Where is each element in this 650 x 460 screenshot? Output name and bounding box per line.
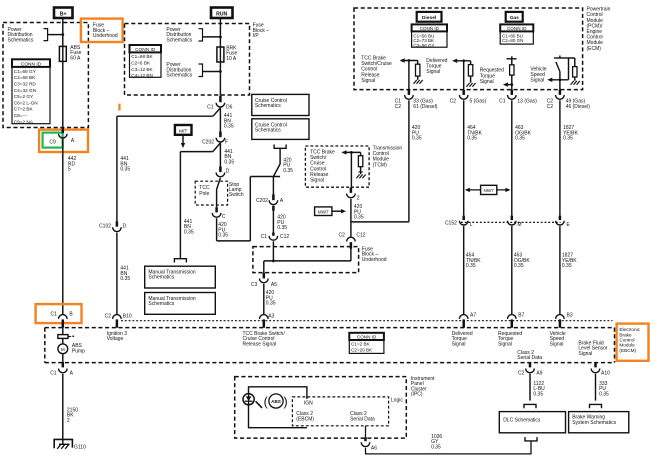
svg-text:0.35: 0.35 bbox=[466, 263, 476, 269]
svg-text:M: M bbox=[61, 347, 65, 352]
instrument panel cluster (IPC) label bbox=[411, 376, 435, 398]
connector C9 terminal bbox=[59, 128, 68, 138]
wire 420 right riser bbox=[350, 248, 352, 261]
svg-text:46 (Diesel): 46 (Diesel) bbox=[566, 104, 591, 110]
connector C1 pin C12 (left) bbox=[261, 232, 290, 240]
fuse ABS 60A bbox=[59, 45, 81, 62]
svg-text:G110: G110 bbox=[74, 444, 86, 450]
svg-text:(EBCM): (EBCM) bbox=[619, 348, 636, 353]
wire 1827 YE/BK 0.35 label (upper) bbox=[563, 125, 578, 141]
label M/T with arrow bbox=[175, 125, 192, 148]
svg-text:C1=2 BK: C1=2 BK bbox=[351, 342, 370, 347]
svg-text:Serial Data: Serial Data bbox=[350, 416, 375, 422]
connector C152 pin M bbox=[508, 216, 522, 229]
wire bulb to class 2 logic bbox=[249, 404, 307, 427]
svg-text:0.35: 0.35 bbox=[224, 124, 234, 130]
manual transmission schematics box 2 bbox=[145, 293, 216, 315]
svg-text:Voltage: Voltage bbox=[107, 336, 124, 342]
powertrain control module dashed box bbox=[354, 8, 583, 90]
junction to power distribution bracket bbox=[48, 33, 65, 36]
svg-text:B3: B3 bbox=[567, 313, 573, 319]
connector PCM pin 13 bbox=[499, 90, 537, 105]
delivered torque signal label (EBCM) bbox=[452, 331, 473, 347]
svg-text:0.35: 0.35 bbox=[599, 391, 609, 397]
power distribution schematics reference (lower IP) bbox=[166, 62, 221, 78]
label Gas bbox=[506, 12, 523, 22]
wire 464 TN/BK upper bbox=[463, 100, 465, 215]
svg-text:C1: C1 bbox=[50, 311, 57, 317]
svg-text:0.35: 0.35 bbox=[120, 276, 130, 282]
node B+ battery feed box bbox=[54, 8, 73, 19]
svg-text:): ) bbox=[284, 395, 288, 409]
wire 1036 GY serial data run bbox=[366, 441, 532, 454]
svg-text:C2: C2 bbox=[338, 232, 345, 238]
connector pin B3 bbox=[556, 313, 573, 328]
svg-text:C102: C102 bbox=[99, 223, 111, 229]
connector C3 pin A5 bbox=[251, 273, 277, 288]
svg-text:Underhood: Underhood bbox=[362, 257, 387, 263]
svg-text:0.35: 0.35 bbox=[120, 167, 130, 173]
svg-text:0.35: 0.35 bbox=[277, 225, 287, 231]
svg-text:C1: C1 bbox=[261, 234, 268, 240]
vehicle speed signal label (PCM) bbox=[530, 66, 546, 83]
svg-text:Signal: Signal bbox=[530, 78, 544, 84]
svg-text:Signal: Signal bbox=[452, 341, 466, 347]
wire 442 RD down to EBCM bbox=[62, 139, 64, 314]
PCM/ECM name label bbox=[587, 7, 611, 52]
power distribution schematics reference (upper IP) bbox=[166, 27, 221, 43]
wire 420 PU 0.35 label (TCM) bbox=[354, 204, 364, 220]
svg-text:System Schematics: System Schematics bbox=[572, 420, 616, 426]
connector C1 pin B highlight box bbox=[36, 304, 82, 323]
ignition 3 voltage label bbox=[107, 331, 128, 342]
wire pump to C1 A bbox=[62, 354, 64, 362]
connector table CONN ID (diesel) bbox=[412, 24, 447, 47]
fuse block underhood dashed boundary bbox=[3, 23, 88, 128]
svg-text:Signal: Signal bbox=[426, 69, 440, 75]
svg-text:0.35: 0.35 bbox=[467, 136, 477, 142]
wire 2150 BK to ground bbox=[62, 374, 64, 444]
svg-text:B+: B+ bbox=[60, 11, 67, 17]
svg-text:D: D bbox=[226, 169, 230, 175]
PCM delivered torque pullup bbox=[452, 59, 475, 87]
svg-text:C2: C2 bbox=[105, 313, 112, 319]
wire 442 RD 5 label bbox=[68, 156, 77, 172]
svg-text:C2=20 BK: C2=20 BK bbox=[351, 347, 373, 352]
connector C202 pin F bbox=[202, 131, 228, 145]
svg-text:61 (Diesel): 61 (Diesel) bbox=[413, 104, 438, 110]
connector PCM pin 49/46 bbox=[547, 90, 591, 110]
connector C2 pin A9 bbox=[518, 363, 543, 377]
wire 420 to C12 bbox=[272, 211, 274, 233]
wire PCM pin C1-33 internal bbox=[408, 61, 410, 92]
svg-text:CONN ID: CONN ID bbox=[420, 26, 440, 31]
svg-text:0.35: 0.35 bbox=[514, 263, 524, 269]
delivered torque signal label bbox=[426, 58, 447, 75]
svg-text:Gas: Gas bbox=[510, 15, 520, 21]
EBCM dashed boundary bbox=[45, 328, 615, 363]
vehicle speed signal label (EBCM) bbox=[550, 331, 566, 347]
wire 420 up to TCM bbox=[350, 199, 352, 237]
svg-text:C2=80 GN: C2=80 GN bbox=[502, 38, 523, 43]
svg-text:0.35: 0.35 bbox=[354, 215, 364, 221]
wire 420 down to C202 A bbox=[272, 177, 274, 195]
svg-text:RUN: RUN bbox=[216, 11, 227, 17]
svg-text:A7: A7 bbox=[470, 313, 476, 319]
wire 420 PU 0.35 label (PCM drop) bbox=[412, 125, 422, 141]
connector table CONN ID (underhood C1-C9) bbox=[12, 59, 50, 124]
svg-text:Schematics: Schematics bbox=[148, 275, 174, 281]
svg-text:M: M bbox=[517, 222, 521, 228]
PCM TCC brake signal label bbox=[361, 56, 392, 84]
svg-text:C8=---: C8=--- bbox=[14, 113, 28, 118]
svg-text:I/P: I/P bbox=[253, 33, 260, 39]
ground G110 bbox=[54, 439, 86, 450]
svg-text:F: F bbox=[225, 140, 228, 146]
wire 2150 BK 2 label bbox=[67, 407, 78, 423]
connector table CONN ID (gas) bbox=[500, 24, 533, 44]
connector pin A10 bbox=[591, 363, 610, 377]
TCM pullup resistor and ground bbox=[342, 150, 366, 178]
svg-text:Switch: Switch bbox=[229, 192, 244, 198]
wire IGN to bulb bbox=[249, 387, 314, 407]
svg-text:C3=32 RD: C3=32 RD bbox=[14, 82, 37, 87]
svg-text:0.35: 0.35 bbox=[218, 233, 228, 239]
svg-text:C3=12 BK: C3=12 BK bbox=[131, 67, 153, 72]
brake fluid level sensor signal label bbox=[578, 340, 608, 356]
svg-text:Underhood: Underhood bbox=[93, 33, 118, 39]
svg-text:A9: A9 bbox=[536, 370, 542, 376]
connector PCM pin 5 bbox=[450, 90, 487, 105]
svg-text:NW7: NW7 bbox=[483, 188, 494, 193]
svg-text:A3: A3 bbox=[268, 313, 274, 319]
wire 463 OG/BK upper bbox=[511, 100, 513, 215]
wire PCM pin C2-5 internal bbox=[463, 61, 465, 92]
svg-text:0.35: 0.35 bbox=[184, 229, 194, 235]
wire 464 TN/BK lower bbox=[463, 226, 465, 314]
svg-text:Logic: Logic bbox=[391, 397, 403, 403]
wire 441 BN 0.35 label (lower run) bbox=[120, 266, 130, 282]
svg-text:CONN ID: CONN ID bbox=[135, 47, 156, 53]
wire 441 BN 0.35 label (M/T branch) bbox=[184, 219, 194, 235]
connector C2 pin C12 (right) bbox=[338, 232, 365, 248]
connector pin D bbox=[216, 167, 230, 177]
svg-text:C2: C2 bbox=[547, 104, 554, 110]
svg-text:C2=68 BK: C2=68 BK bbox=[14, 75, 36, 80]
node RUN ignition feed box bbox=[211, 8, 233, 19]
svg-text:C2: C2 bbox=[518, 370, 525, 376]
svg-text:Schematics: Schematics bbox=[148, 301, 174, 307]
transmission control module (TCM) label bbox=[373, 146, 403, 169]
svg-text:Release Signal: Release Signal bbox=[243, 341, 277, 347]
wire 441 branch to manual trans bbox=[180, 143, 220, 259]
svg-text:C1: C1 bbox=[50, 371, 57, 377]
wire 333 to brake warning bbox=[590, 374, 602, 408]
connector C1 pin A bbox=[50, 362, 73, 377]
svg-text:2: 2 bbox=[357, 196, 360, 202]
svg-text:Serial Data: Serial Data bbox=[517, 355, 542, 361]
svg-text:L: L bbox=[470, 222, 473, 228]
svg-text:A6: A6 bbox=[371, 445, 377, 451]
TCM signal label bbox=[310, 150, 335, 184]
svg-text:C202: C202 bbox=[256, 198, 268, 204]
svg-text:A5: A5 bbox=[271, 282, 277, 288]
svg-text:C202: C202 bbox=[202, 140, 214, 146]
ABS indicator label bbox=[264, 394, 288, 409]
svg-text:10 A: 10 A bbox=[226, 56, 237, 62]
svg-text:Schematics: Schematics bbox=[255, 128, 281, 134]
electronic brake control module (EBCM) orange callout bbox=[617, 324, 649, 361]
svg-text:C4=32 GN: C4=32 GN bbox=[14, 88, 36, 93]
svg-text:13 (Gas): 13 (Gas) bbox=[517, 99, 537, 105]
svg-text:(TCM): (TCM) bbox=[373, 162, 387, 168]
svg-text:Schematics: Schematics bbox=[166, 73, 192, 79]
wire 463 OG/BK 0.35 label (lower) bbox=[514, 253, 531, 269]
svg-text:C9: C9 bbox=[49, 139, 56, 145]
fuse block underhood orange callout box bbox=[81, 19, 123, 42]
svg-text:C2=6 BK: C2=6 BK bbox=[131, 61, 151, 66]
svg-text:C6=2 L-GN: C6=2 L-GN bbox=[14, 100, 38, 105]
wire 420 switch output run bbox=[217, 177, 281, 241]
svg-text:Pump: Pump bbox=[72, 348, 85, 354]
svg-text:0.35: 0.35 bbox=[412, 136, 422, 142]
svg-text:0.35: 0.35 bbox=[266, 301, 276, 307]
svg-text:C1=68 BK: C1=68 BK bbox=[131, 54, 153, 59]
svg-text:C1: C1 bbox=[499, 99, 506, 105]
svg-text:CONN ID: CONN ID bbox=[507, 26, 527, 31]
svg-text:C: C bbox=[222, 214, 226, 220]
label NW7 splice pointer bbox=[465, 185, 511, 194]
svg-text:C3=56 GY: C3=56 GY bbox=[413, 43, 434, 48]
wire 420 into fuse block bbox=[272, 241, 274, 261]
manual transmission schematics reference bracket bbox=[174, 259, 186, 263]
svg-text:Signal: Signal bbox=[550, 341, 564, 347]
PCM TCC brake input pullup bbox=[400, 58, 423, 84]
wire 441 BN 0.35 label (below D6) bbox=[224, 113, 234, 129]
requested torque signal label (EBCM) bbox=[498, 331, 522, 347]
wire 463 OG/BK lower bbox=[511, 226, 513, 314]
svg-text:MW7: MW7 bbox=[318, 209, 329, 214]
connector C202 pin A bbox=[256, 194, 284, 211]
svg-text:C1: C1 bbox=[207, 104, 214, 110]
svg-text:0.35: 0.35 bbox=[563, 136, 573, 142]
wire 420 PU 0.35 label (to EBCM) bbox=[266, 290, 276, 306]
wire 420 from cruise control bbox=[273, 145, 286, 177]
svg-text:D6: D6 bbox=[226, 104, 233, 110]
wire 463 OG/BK 0.35 label (upper) bbox=[515, 125, 532, 141]
svg-text:C2: C2 bbox=[395, 104, 402, 110]
svg-text:CONN ID: CONN ID bbox=[21, 61, 42, 67]
inline connector C102 pin D bbox=[99, 221, 127, 231]
label MW7 with arrow bbox=[315, 207, 346, 216]
wire 441 BN lower run bbox=[116, 233, 118, 315]
svg-text:D: D bbox=[123, 223, 127, 229]
connector C152 pin L bbox=[459, 216, 472, 229]
connector pin B terminal bbox=[59, 315, 68, 328]
svg-text:B7: B7 bbox=[518, 313, 524, 319]
wire 420 PU 0.35 label (switch out) bbox=[218, 222, 228, 238]
cruise control schematics box 1 bbox=[252, 94, 309, 115]
fuse BRK 10A bbox=[217, 46, 238, 63]
svg-text:C12: C12 bbox=[280, 234, 289, 240]
wire 441 to stop lamp switch bbox=[219, 143, 221, 167]
manual transmission schematics box 1 bbox=[145, 266, 216, 288]
wire 1036 GY 0.35 label bbox=[431, 434, 442, 450]
svg-text:0.35: 0.35 bbox=[283, 168, 293, 174]
svg-text:CONN ID: CONN ID bbox=[357, 334, 377, 339]
wire TCM pin 2 internal bbox=[350, 152, 352, 187]
svg-text:Signal: Signal bbox=[498, 341, 512, 347]
instrument panel cluster dashed box bbox=[235, 377, 407, 439]
connector C152 pin E bbox=[556, 216, 571, 229]
svg-text:C5=2 GY: C5=2 GY bbox=[14, 94, 34, 99]
wire 441 BN 0.35 label (upper run) bbox=[120, 156, 130, 172]
svg-text:M/T: M/T bbox=[179, 129, 187, 135]
brake warning system schematics box bbox=[569, 412, 629, 433]
inline connector C152 dotted face bbox=[445, 221, 561, 227]
svg-text:Diesel: Diesel bbox=[422, 15, 437, 21]
svg-text:Pole: Pole bbox=[199, 191, 209, 197]
svg-text:B10: B10 bbox=[123, 313, 132, 319]
wire 441 branch to left bbox=[117, 108, 220, 116]
IPC logic dashed box bbox=[292, 397, 403, 426]
wire 1827 YE/BK upper bbox=[559, 100, 561, 215]
connector pin B7 bbox=[508, 313, 525, 328]
wire 464 TN/BK 0.35 label (lower) bbox=[466, 253, 481, 269]
svg-text:C12: C12 bbox=[356, 232, 365, 238]
connector PCM pin 33/61 bbox=[395, 90, 438, 110]
svg-text:Signal: Signal bbox=[361, 78, 375, 84]
connector C2 pin B10 bbox=[105, 313, 132, 327]
label Diesel bbox=[417, 12, 442, 22]
ABS indicator bulb bbox=[243, 394, 262, 408]
wire 420 PU 0.35 label (below A) bbox=[277, 215, 287, 231]
connector pin A3 bbox=[260, 313, 275, 327]
wire 420 PU 0.35 label (cruise) bbox=[283, 158, 293, 174]
wire 420 bus inside fuse block bbox=[264, 260, 351, 262]
svg-text:C4=12 BN: C4=12 BN bbox=[131, 73, 153, 78]
svg-text:C2: C2 bbox=[450, 99, 457, 105]
svg-text:ABS: ABS bbox=[271, 399, 281, 404]
svg-text:C3: C3 bbox=[251, 282, 258, 288]
DLC lower reference bracket bbox=[525, 437, 537, 441]
wire 441 down to C202 bbox=[219, 108, 221, 131]
wire 420 PU from PCM bbox=[351, 100, 409, 222]
DLC schematics box bbox=[499, 412, 565, 433]
connector pin C bbox=[212, 207, 226, 220]
svg-text:C152: C152 bbox=[445, 221, 457, 227]
fuse block IP dashed boundary bbox=[125, 24, 250, 96]
svg-text:0.35: 0.35 bbox=[515, 136, 525, 142]
connector C9 highlight (orange+green) with pin A bbox=[39, 130, 88, 152]
svg-text:5 (Gas): 5 (Gas) bbox=[470, 99, 487, 105]
svg-text:Signal: Signal bbox=[578, 351, 592, 357]
svg-text:Signal: Signal bbox=[310, 178, 324, 184]
wire 39 RUN feed vertical bbox=[219, 18, 221, 96]
transmission control module dashed box bbox=[305, 146, 369, 187]
svg-text:0.35: 0.35 bbox=[562, 263, 572, 269]
svg-text:(IPC): (IPC) bbox=[411, 392, 423, 398]
wire 1122 to DLC bbox=[524, 374, 536, 408]
connector table CONN ID (IP C1-C4) bbox=[130, 45, 162, 78]
svg-text:(EBCM): (EBCM) bbox=[296, 416, 314, 422]
svg-text:5: 5 bbox=[68, 167, 71, 173]
wire 1827 YE/BK 0.35 label (lower) bbox=[562, 253, 577, 269]
wire 1827 YE/BK lower bbox=[559, 226, 561, 314]
wire 333 PU 0.35 label bbox=[599, 381, 609, 397]
svg-text:C1=68 GY: C1=68 GY bbox=[14, 69, 37, 74]
svg-text:Signal: Signal bbox=[480, 79, 494, 85]
class 2 serial data label (IPC) bbox=[350, 411, 375, 423]
motor M ABS pump bbox=[58, 338, 85, 354]
svg-text:Schematics: Schematics bbox=[166, 37, 192, 43]
power distribution schematics reference (left) bbox=[8, 27, 48, 43]
wire 420 down to EBCM A3 bbox=[263, 284, 265, 314]
wire 441 BN 0.35 label (above D) bbox=[224, 149, 234, 165]
cruise control schematics box 2 bbox=[252, 119, 309, 140]
requested torque signal label bbox=[480, 68, 504, 85]
svg-text:0.35: 0.35 bbox=[431, 444, 441, 450]
TCC brake release signal label (EBCM) bbox=[243, 331, 286, 347]
svg-text:A10: A10 bbox=[601, 370, 610, 376]
stop lamp switch (TCC pole) bbox=[195, 178, 244, 207]
wire 442 from B+ through ABS fuse bbox=[62, 18, 64, 128]
connector pin A7 bbox=[459, 313, 476, 328]
wire 1122 L-BU 0.35 label bbox=[533, 381, 545, 397]
svg-text:Schematics: Schematics bbox=[8, 37, 34, 43]
connector C1 pin D6 bbox=[207, 96, 233, 111]
wire 420 left drop to A5 bbox=[263, 261, 265, 273]
svg-text:C7=2 BK: C7=2 BK bbox=[14, 107, 34, 112]
fuse block underhood (middle) dashed boundary bbox=[253, 246, 387, 272]
svg-text:0.35: 0.35 bbox=[224, 159, 234, 165]
fuse block IP label bbox=[253, 23, 270, 39]
EBCM connector dotted face bbox=[121, 320, 613, 322]
PCM vehicle speed switch and pullup bbox=[547, 56, 580, 92]
class 2 (EBCM) label bbox=[296, 411, 314, 423]
svg-text:C9=2 NA: C9=2 NA bbox=[14, 119, 34, 124]
connector IPC pin A6 bbox=[361, 426, 377, 452]
svg-text:60 A: 60 A bbox=[70, 55, 81, 61]
connector TCM pin 2 bbox=[347, 188, 360, 202]
junction in fuse block bbox=[272, 260, 275, 263]
svg-text:2: 2 bbox=[67, 418, 70, 424]
svg-text:DLC Schematics: DLC Schematics bbox=[503, 417, 541, 423]
PCM requested torque sense bbox=[503, 56, 517, 92]
connector table CONN ID (EBCM) bbox=[349, 333, 384, 354]
svg-text:(ECM): (ECM) bbox=[587, 46, 602, 52]
svg-text:IGN: IGN bbox=[304, 401, 313, 407]
orange splice tick bbox=[118, 104, 120, 111]
svg-text:0.35: 0.35 bbox=[533, 391, 543, 397]
wire 464 TN/BK 0.35 label (upper) bbox=[467, 125, 482, 141]
class 2 serial data label (EBCM) bbox=[517, 350, 542, 361]
svg-text:Schematics: Schematics bbox=[255, 103, 281, 109]
ABS pump motor feed fuse bbox=[58, 328, 74, 339]
wire 441 BN vertical run bbox=[116, 116, 118, 221]
